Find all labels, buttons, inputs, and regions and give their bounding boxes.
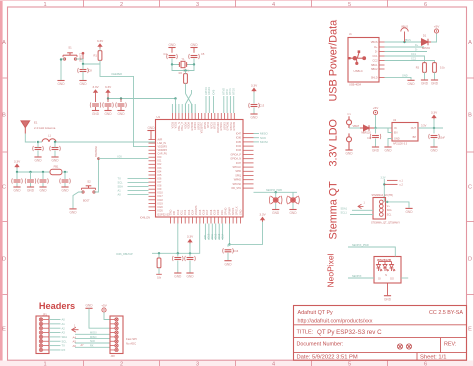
svg-text:IO11: IO11 <box>180 209 183 215</box>
+5V supply (USB) <box>434 25 441 33</box>
wire C10 to ground <box>30 183 32 187</box>
capacitor C16 <box>223 248 239 253</box>
svg-text:GND: GND <box>345 152 353 156</box>
wire rail to C3 <box>120 99 122 103</box>
wire XTAL_P crossover <box>186 94 192 114</box>
wire bottom stub 2 <box>208 224 210 241</box>
svg-text:IO9: IO9 <box>173 210 176 215</box>
wire junction to R2 <box>185 71 187 74</box>
svg-text:BOOT: BOOT <box>83 200 90 202</box>
title block document number row <box>297 342 457 348</box>
junction rail2 C11 <box>42 171 44 173</box>
junction rail2 C10 <box>29 171 31 173</box>
capacitor C12 <box>60 178 71 183</box>
wire reset net to U1 <box>100 64 149 147</box>
svg-text:GND: GND <box>250 116 258 120</box>
net stub SWRC1 <box>82 52 85 59</box>
svg-text:3.3V: 3.3V <box>105 85 112 89</box>
wire C8 to ground <box>82 72 84 81</box>
wire C4 to crystal <box>172 59 179 65</box>
wire filter to L1 <box>38 141 42 143</box>
svg-text:2.4 GHz Antenna: 2.4 GHz Antenna <box>34 126 56 130</box>
wire node B to C15 <box>189 253 191 256</box>
+3.3V supply (R1) <box>97 39 104 48</box>
wire down to C16 <box>227 244 229 246</box>
transistor Q1 <box>269 196 282 205</box>
wire C1 to ground <box>95 107 97 110</box>
svg-text:1: 1 <box>43 361 46 366</box>
svg-text:IO33: IO33 <box>236 149 242 152</box>
ground (U2) <box>384 147 392 153</box>
wire antenna to filter <box>25 134 36 143</box>
wires above U1 top pins <box>172 104 195 113</box>
wire Q1 to ground <box>275 203 277 209</box>
svg-text:STEMMA_QT_QT5MANY: STEMMA_QT_QT5MANY <box>371 222 400 225</box>
connector JP1 body <box>36 316 49 354</box>
svg-text:3: 3 <box>196 361 199 366</box>
svg-text:GND: GND <box>384 297 392 301</box>
+3.3V supply (NeoPixel power) <box>259 212 266 221</box>
svg-text:SCL: SCL <box>118 181 124 185</box>
svg-text:RX: RX <box>90 345 94 348</box>
U1 top pin labels <box>171 121 236 133</box>
net stub QT A <box>387 179 398 181</box>
wire LDO OUT <box>418 127 443 129</box>
svg-text:IO5: IO5 <box>158 174 163 177</box>
svg-text:⇅: ⇅ <box>385 274 387 277</box>
wire C15 to ground <box>189 261 191 273</box>
ground (Q2) <box>289 210 297 216</box>
svg-text:VDD3P3: VDD3P3 <box>195 205 198 215</box>
capacitor C2 1uF <box>103 102 114 107</box>
wire node to Q2 <box>292 192 294 197</box>
svg-text:2: 2 <box>120 2 123 8</box>
USB trident logo <box>348 50 366 65</box>
svg-text:NEOPIX_PWR: NEOPIX_PWR <box>266 189 282 192</box>
svg-text:GND: GND <box>190 43 198 47</box>
capacitor C13 <box>249 103 265 108</box>
svg-text:SPICS: SPICS <box>232 207 235 215</box>
wire rail to C2 <box>107 99 109 103</box>
wire JP1 A3 <box>49 332 61 334</box>
wire C12 to ground <box>64 183 66 187</box>
svg-text:IO4: IO4 <box>158 170 163 173</box>
wire Q2 to ground <box>292 203 294 209</box>
wire C3 to ground <box>120 107 122 110</box>
svg-text:SDA: SDA <box>118 185 124 189</box>
wire JP2 RX <box>75 346 110 348</box>
ferrite bead FB1 <box>50 169 62 174</box>
svg-text:VDD3P3: VDD3P3 <box>158 146 168 149</box>
svg-text:SCK: SCK <box>90 340 95 343</box>
ground (S2) <box>69 209 77 215</box>
svg-text:IO15: IO15 <box>199 209 202 215</box>
svg-text:U1: U1 <box>157 115 161 119</box>
wire JP1 RX <box>49 349 61 351</box>
wire out to C18 <box>433 128 435 134</box>
resistor R5 <box>157 258 161 268</box>
LED module LED1 NeoPixel body <box>374 257 401 284</box>
wire EN tie <box>388 128 392 133</box>
svg-text:10uF: 10uF <box>440 137 446 140</box>
svg-text:S1: S1 <box>68 46 72 50</box>
wire +5V to JP2 <box>104 312 110 319</box>
capacitor C3 0.1uF <box>116 102 127 107</box>
capacitor C10 <box>25 178 36 183</box>
svg-text:RX: RX <box>62 348 66 352</box>
+3.3V supply (C2) <box>105 85 112 94</box>
svg-text:C13: C13 <box>259 104 264 108</box>
title block TITLE row <box>297 329 383 336</box>
svg-text:SCL: SCL <box>62 339 68 343</box>
wire SCK <box>254 137 260 139</box>
svg-text:IO21: IO21 <box>221 209 224 215</box>
junction NEOPIX_PWR <box>228 243 230 245</box>
wire JP1 SCL <box>49 340 61 342</box>
wire ground to JP2 <box>89 308 110 328</box>
wire SDA1 <box>352 209 373 211</box>
ground (Q1) <box>272 210 280 216</box>
svg-text:GND: GND <box>384 149 392 153</box>
ground (C15) <box>186 273 194 279</box>
svg-text:IO9: IO9 <box>158 188 163 191</box>
svg-text:GND: GND <box>402 75 408 78</box>
svg-text:C16: C16 <box>233 249 238 253</box>
svg-text:IO14: IO14 <box>192 209 195 215</box>
svg-text:3.3V: 3.3V <box>14 159 21 163</box>
svg-text:KEEPER: KEEPER <box>112 72 123 76</box>
ground (LED1) <box>384 296 392 302</box>
svg-text:REV:: REV: <box>444 342 456 348</box>
wire 3.3V to J2 <box>383 179 385 202</box>
svg-text:B: B <box>468 113 472 119</box>
ground (C11) <box>39 187 47 193</box>
wire crystal XTAL_N stub <box>191 90 193 94</box>
svg-text:GND: GND <box>27 189 35 193</box>
wire +5V to LDO node <box>375 115 377 128</box>
svg-text:GND: GND <box>372 149 380 153</box>
svg-text:Sheet: 1/1: Sheet: 1/1 <box>420 355 446 361</box>
wire U0TXD <box>205 96 207 113</box>
svg-text:GND: GND <box>13 189 21 193</box>
svg-text:WPHD: WPHD <box>234 179 242 182</box>
svg-text:Headers: Headers <box>39 301 75 311</box>
wire bottom stub 4 <box>215 224 217 241</box>
wire ground stub to U1 <box>150 131 152 140</box>
wire R1 to node <box>99 60 101 64</box>
svg-text:GND: GND <box>117 112 125 116</box>
J1 pin stubs <box>379 42 385 77</box>
svg-text:FB1: FB1 <box>54 165 59 169</box>
ground (C7) <box>51 157 59 163</box>
ground (C12) <box>61 187 69 193</box>
ground (C17) <box>372 147 380 153</box>
diode D1 <box>421 39 432 45</box>
JP2 pin circles <box>110 318 118 352</box>
svg-text:GND: GND <box>239 209 242 215</box>
svg-text:IO46_DN: IO46_DN <box>140 217 150 220</box>
svg-text:NeoPixel: NeoPixel <box>326 253 336 287</box>
ground (C10) <box>27 187 35 193</box>
svg-text:USB-4054: USB-4054 <box>349 83 362 87</box>
svg-text:3.3V LDO: 3.3V LDO <box>328 119 340 166</box>
wire SCL1 <box>350 214 373 216</box>
svg-text:GND: GND <box>69 211 77 215</box>
wire JP2 SCK <box>75 342 110 344</box>
svg-text:+5V: +5V <box>434 25 441 29</box>
capacitor C7 <box>50 146 61 151</box>
svg-text:GND: GND <box>169 209 172 215</box>
wire VBUS <box>385 41 421 43</box>
svg-text:MBR120: MBR120 <box>361 132 371 135</box>
svg-text:IO2: IO2 <box>158 163 163 166</box>
test point TP1 <box>347 116 352 128</box>
wire MT2 <box>229 96 231 113</box>
junction crystal to R2 <box>184 69 186 71</box>
svg-text:IO19: IO19 <box>214 209 217 215</box>
wire NEOPIX_PWR to LED1 <box>348 247 395 257</box>
svg-text:SCL1: SCL1 <box>341 212 348 215</box>
svg-text:D+: D+ <box>415 44 419 47</box>
wire U1 to NEOPIX_PWR node <box>229 224 231 245</box>
svg-text:6: 6 <box>424 2 427 8</box>
frame left margin strip <box>0 0 3 366</box>
wire D1 to +5V <box>431 34 437 43</box>
wire NEOPIX_PWR row right <box>254 191 298 193</box>
capacitor C11 <box>38 178 49 183</box>
junction C15 <box>189 252 191 254</box>
connector J1 USB-C body <box>348 38 379 83</box>
wire JP2 MISO <box>75 338 110 340</box>
+3.3V supply (rail2) <box>14 159 21 168</box>
wire bottom stub 1 <box>204 224 206 241</box>
svg-text:D1: D1 <box>423 34 427 38</box>
svg-text:CAP_PU: CAP_PU <box>158 153 168 156</box>
wire C16 to ground <box>227 253 229 260</box>
switch S2 (boot) <box>82 186 96 193</box>
capacitor C5 15pF <box>189 54 200 59</box>
ground (C1) <box>92 111 100 117</box>
switch S1 (reset) <box>63 53 77 60</box>
svg-text:GND: GND <box>430 149 438 153</box>
svg-text:IO17: IO17 <box>158 195 164 198</box>
wire switch S1 left to ground <box>61 59 65 80</box>
svg-text:R1: R1 <box>93 54 97 58</box>
svg-text:OUT: OUT <box>411 127 417 130</box>
transistor Q2 <box>287 196 300 205</box>
svg-text:ESP32-S3: ESP32-S3 <box>158 213 171 217</box>
junction C14 <box>177 252 179 254</box>
wire JP2 MOSI <box>75 333 110 335</box>
junction rail2 C12 <box>64 171 66 173</box>
junction R5 <box>158 252 160 254</box>
svg-text:CC2: CC2 <box>372 60 378 63</box>
wire rail2 right <box>62 171 68 173</box>
wire rail2 to C12 <box>64 172 66 179</box>
svg-text:GND: GND <box>104 112 112 116</box>
svg-text:GND: GND <box>186 275 194 279</box>
wire filter C6 up <box>37 142 39 148</box>
wire switch S1 right <box>76 59 84 64</box>
crystal Y1 40MHz <box>179 61 188 67</box>
ground (C18) <box>430 147 438 153</box>
test point TP2 <box>347 133 352 149</box>
svg-text:SWRC1: SWRC1 <box>79 52 83 62</box>
svg-text:MISO: MISO <box>90 336 96 339</box>
svg-text:IO18: IO18 <box>210 209 213 215</box>
wire MOSI <box>254 141 260 143</box>
svg-text:IO37: IO37 <box>236 162 242 165</box>
svg-text:A0: A0 <box>62 318 66 322</box>
svg-text:AP2112K-3.3: AP2112K-3.3 <box>393 143 408 146</box>
capacitor C6 <box>33 146 44 151</box>
svg-text:SDA1: SDA1 <box>341 207 348 210</box>
ground (C13) <box>250 114 258 120</box>
wire JP1 SDA <box>49 336 61 338</box>
svg-text:2: 2 <box>120 361 123 366</box>
svg-text:STEMMA4_I2C(TB): STEMMA4_I2C(TB) <box>372 194 393 197</box>
svg-text:IO20: IO20 <box>158 206 164 209</box>
svg-text:DO: DO <box>390 278 394 281</box>
svg-text:GPIO45: GPIO45 <box>233 121 236 130</box>
wire crystal loop right <box>186 65 195 71</box>
wire SCL to U1 <box>128 182 149 184</box>
svg-text:Date: 5/9/2022 3:51 PM: Date: 5/9/2022 3:51 PM <box>297 355 358 361</box>
wire node to Q1 <box>275 192 277 197</box>
svg-text:C17: C17 <box>367 137 372 140</box>
svg-text:GND: GND <box>51 159 59 163</box>
wire +3.3V to C13 <box>253 92 255 104</box>
svg-text:IO17: IO17 <box>206 209 209 215</box>
resistor R4 5.1k <box>433 63 437 73</box>
ground (C8) <box>79 81 87 87</box>
svg-text:A2: A2 <box>62 326 66 330</box>
svg-text:GND: GND <box>79 82 87 86</box>
wire R2 down <box>185 83 187 93</box>
capacitor C17 <box>370 134 381 139</box>
wire node B to C14 <box>177 253 179 256</box>
svg-text:D+: D+ <box>374 46 378 49</box>
wire JP1 A1 <box>49 323 61 325</box>
svg-text:GND: GND <box>92 112 100 116</box>
title block date row <box>297 355 447 361</box>
svg-text:VBUS: VBUS <box>401 25 408 29</box>
svg-text:IO12: IO12 <box>184 209 187 215</box>
svg-text:GND: GND <box>431 82 439 86</box>
svg-text:USB Power/Data: USB Power/Data <box>328 20 340 102</box>
wire MT0 <box>223 96 225 113</box>
resistor R1 10k <box>93 51 101 61</box>
svg-text:CC1: CC1 <box>372 55 378 58</box>
wire +3.3V to rail <box>107 94 109 98</box>
junction rail2 C9 <box>16 171 18 173</box>
svg-text:GPIOA_N: GPIOA_N <box>230 158 241 161</box>
svg-text:+5V: +5V <box>373 106 380 110</box>
svg-text:3.3V: 3.3V <box>431 110 438 114</box>
wire 3.3V rail to U1 <box>108 98 176 100</box>
svg-text:MOSI: MOSI <box>260 140 268 144</box>
svg-text:GND: GND <box>39 189 47 193</box>
svg-text:CC1: CC1 <box>411 53 417 56</box>
svg-text:A: A <box>468 40 472 46</box>
svg-text:NEOPIX: NEOPIX <box>352 275 362 278</box>
ground (TP2) <box>345 150 353 156</box>
svg-text:S2: S2 <box>87 180 91 184</box>
svg-text:SDA: SDA <box>62 335 68 339</box>
svg-text:GND: GND <box>168 43 176 47</box>
svg-text:QT Py ESP32-S3 rev C: QT Py ESP32-S3 rev C <box>317 329 382 336</box>
wire filter C7 up <box>54 142 56 148</box>
wire JP1 TX <box>49 345 61 347</box>
svg-text:SPIWP: SPIWP <box>228 207 231 215</box>
svg-text:DI: DI <box>378 278 381 281</box>
wire TP1 to VBAT node <box>349 127 360 129</box>
wire A1 to U1 <box>128 190 149 192</box>
svg-text:A: A <box>2 40 6 46</box>
capacitor C14 <box>173 256 184 261</box>
wire C13 to ground <box>253 108 255 114</box>
junction J2 GND <box>386 201 388 203</box>
frame row letters <box>2 40 472 333</box>
J1 pin labels <box>371 41 378 79</box>
wire A0 to U1 <box>128 194 149 196</box>
svg-text:JP1: JP1 <box>43 314 48 317</box>
wire node to C17 <box>375 128 377 134</box>
U2 pin labels <box>394 127 416 141</box>
junction Q1 <box>275 191 277 193</box>
frame top hairline <box>0 0 474 1</box>
svg-text:GND: GND <box>57 82 65 86</box>
svg-text:MOSI: MOSI <box>90 332 97 335</box>
wire node to R5 <box>158 253 160 258</box>
svg-text:SWDWN2: SWDWN2 <box>95 145 98 157</box>
wire R1 to +3.3V <box>99 48 101 51</box>
svg-text:SPIQ: SPIQ <box>235 174 241 177</box>
svg-text:SBU1: SBU1 <box>371 64 378 67</box>
svg-text:3.3V: 3.3V <box>92 85 99 89</box>
wire C18 to ground <box>433 139 435 147</box>
svg-text:3.3V: 3.3V <box>97 39 104 43</box>
wire IO0 net to U1 <box>99 158 149 160</box>
wire bottom stub 6 <box>222 224 224 241</box>
wire node row B <box>152 224 200 254</box>
U1 left pin labels <box>158 138 168 212</box>
JP1 pin circles <box>39 318 49 352</box>
svg-text:GND: GND <box>405 210 413 214</box>
wire rail2 to C11 <box>42 172 44 179</box>
diode D2 MBR120 <box>360 125 374 131</box>
svg-text:5.1k: 5.1k <box>440 67 445 70</box>
wire S2 up to IO0 net <box>94 159 99 192</box>
+3.3V supply (LDO out) <box>431 110 438 119</box>
+3.3V supply (node B) <box>187 235 194 244</box>
svg-text:IO46_DBLTAP: IO46_DBLTAP <box>116 252 133 256</box>
junction rail C2 <box>107 97 109 99</box>
svg-text:3.3V: 3.3V <box>381 176 386 179</box>
junction VBUS <box>403 41 405 43</box>
wire bottom stub 3 <box>211 224 213 241</box>
svg-text:GND: GND <box>421 82 429 86</box>
ground (C2) <box>104 111 112 117</box>
svg-text:BAT20J: BAT20J <box>422 47 430 50</box>
wire D- <box>385 51 428 53</box>
+5V supply (LDO) <box>373 106 380 115</box>
svg-text:E: E <box>2 327 6 333</box>
svg-text:3.3V: 3.3V <box>421 124 427 128</box>
wire 3.3V rail2 left <box>17 168 50 172</box>
wire CC2 <box>385 61 435 63</box>
svg-text:BP: BP <box>413 136 417 139</box>
